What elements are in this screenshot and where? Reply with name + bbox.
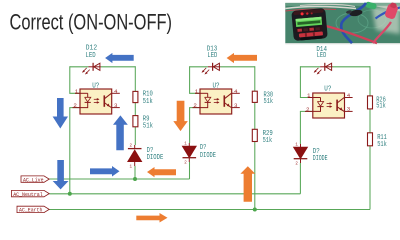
svg-text:4: 4 (114, 88, 118, 95)
svg-text:LED: LED (86, 52, 97, 60)
net AC_Earth rail wire (49, 209, 370, 211)
arrow: orange left (AC_Live toward junction) (147, 167, 176, 177)
svg-text:51k: 51k (376, 102, 386, 110)
svg-text:51k: 51k (264, 98, 274, 106)
resistor R29 (252, 129, 257, 141)
pin 1 (block2) (195, 92, 200, 94)
wire: block2 right column (254, 66, 256, 91)
svg-text:1: 1 (75, 88, 79, 95)
svg-text:4: 4 (347, 92, 351, 99)
svg-text:AC_Earth: AC_Earth (19, 207, 43, 214)
LED D13 (202, 63, 221, 75)
wire: block1 left upper segment to pin1 (70, 66, 80, 93)
LED D12 (82, 63, 101, 75)
diode D? (block1) (128, 145, 142, 170)
pin 2 (block2) (193, 107, 201, 109)
op-amp: optocoupler U? (block3) (313, 93, 345, 118)
wire: block3 top rail (300, 66, 320, 68)
svg-text:2: 2 (193, 102, 197, 109)
svg-text:AC_Live: AC_Live (23, 176, 44, 183)
svg-text:LED: LED (317, 52, 327, 60)
wire: block2 top rail (190, 66, 208, 68)
resistor R10 (133, 91, 138, 102)
arrow: orange right (AC_Earth) (136, 213, 167, 223)
arrow: blue down upper (block1 left) (53, 98, 68, 129)
pin 2 (block3) (305, 110, 313, 112)
LED D14 (314, 63, 333, 75)
net AC_Neutral rail wire (49, 193, 300, 195)
pin 1 (block3) (308, 97, 313, 99)
pin 2 (block1) (73, 107, 81, 109)
wire: block1 pin2 to neutral (70, 108, 80, 194)
svg-text:Correct (ON-ON-OFF): Correct (ON-ON-OFF) (10, 10, 173, 35)
junction: block2 column to AC_Earth (253, 208, 257, 212)
arrow: blue left (block1 top) (105, 53, 134, 63)
wire: block2 left upper segment to pin1 (190, 66, 200, 93)
svg-text:3: 3 (114, 102, 118, 109)
svg-text:1: 1 (307, 92, 311, 99)
svg-text:U?: U? (324, 86, 331, 94)
pin 4 (block3) (345, 97, 353, 99)
net label AC_Live (21, 176, 49, 184)
svg-text:DIODE: DIODE (313, 155, 328, 163)
net label AC_Neutral (12, 190, 50, 198)
junction: block1 column to AC_Live (133, 177, 137, 181)
svg-text:U?: U? (213, 82, 220, 90)
arrow: blue down lower (block1 left to neutral) (53, 160, 69, 189)
svg-text:AC_Neutral: AC_Neutral (13, 191, 43, 198)
svg-text:3: 3 (234, 102, 238, 109)
arrow: blue right (AC_Live into junction) (90, 166, 120, 177)
resistor R26 (368, 96, 373, 109)
wire: block3 left upper segment to pin1 (300, 66, 312, 97)
arrow: orange up (block2 column from earth) (240, 166, 255, 202)
svg-text:DIODE: DIODE (200, 152, 216, 160)
pin 3 (block1) (112, 107, 120, 109)
svg-text:LED: LED (207, 52, 217, 60)
junction: block1 left wire to AC_Neutral (68, 192, 72, 196)
wire: block1 right column (134, 66, 136, 91)
arrow: orange down (block2 left) (173, 101, 188, 131)
svg-text:51k: 51k (143, 123, 154, 131)
svg-text:D?: D? (200, 144, 207, 152)
svg-text:3: 3 (347, 106, 351, 113)
pin 3 (block3) (345, 110, 353, 112)
svg-text:DIODE: DIODE (147, 154, 164, 162)
svg-text:1: 1 (195, 88, 199, 95)
wire: block3 pin2 down to diode and AC_Neutral (300, 111, 312, 144)
svg-text:U?: U? (92, 83, 99, 91)
arrow: orange left (block2 top) (227, 53, 257, 63)
pin 4 (block2) (232, 92, 240, 94)
pin 3 (block2) (232, 107, 240, 109)
arrow: blue up (block1 column) (113, 115, 128, 150)
pin 4 (block1) (112, 92, 120, 94)
svg-text:51k: 51k (377, 141, 387, 149)
svg-text:51k: 51k (263, 137, 273, 145)
resistor R30 (252, 91, 257, 102)
wire: block2 pin2 down to diode and AC_Live (190, 108, 200, 143)
svg-text:2: 2 (73, 102, 77, 109)
wire: block3 right column (369, 66, 371, 96)
svg-text:2: 2 (306, 106, 310, 113)
op-amp: optocoupler U? (block1) (80, 89, 112, 114)
net label AC_Earth (17, 206, 49, 214)
diode D? (block3) (294, 144, 308, 167)
resistor R11 (368, 133, 373, 146)
svg-text:51k: 51k (143, 98, 154, 106)
net AC_Live rail wire (49, 178, 189, 180)
op-amp: optocoupler U? (block2) (200, 89, 232, 114)
resistor R9 (133, 116, 138, 127)
svg-text:4: 4 (234, 88, 238, 95)
wire: block1 top rail (70, 66, 89, 68)
pin 1 (block1) (75, 92, 80, 94)
diode D? (block2) (183, 143, 197, 166)
